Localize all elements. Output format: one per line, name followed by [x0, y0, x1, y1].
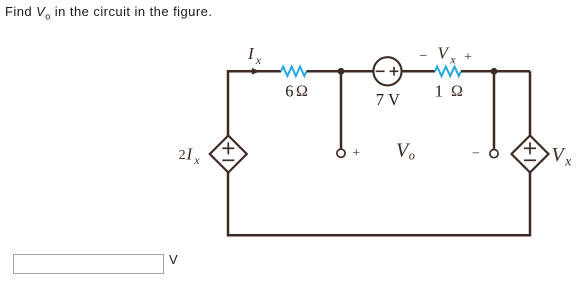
- svg-text:o: o: [409, 148, 415, 162]
- unit label V: [169, 252, 178, 267]
- svg-text:Ω: Ω: [451, 83, 463, 100]
- label 2Ix: [179, 144, 201, 167]
- svg-text:−: −: [472, 147, 480, 162]
- resistor 6ohm: [281, 67, 307, 76]
- dependent source Vx (right diamond): [512, 136, 549, 173]
- svg-text:7: 7: [376, 90, 384, 109]
- terminal + (open circle): [337, 149, 345, 157]
- svg-text:+: +: [464, 50, 472, 65]
- terminal - (open circle): [490, 150, 498, 158]
- label Vx (right): [552, 144, 572, 169]
- svg-text:1: 1: [435, 82, 443, 101]
- svg-text:6: 6: [285, 82, 293, 101]
- svg-text:V: V: [388, 90, 400, 109]
- svg-text:2: 2: [179, 148, 186, 163]
- label 1 ohm: [435, 82, 463, 101]
- label Vo: [396, 140, 415, 163]
- question text: [5, 4, 212, 22]
- node junction dot (top middle-right): [491, 68, 498, 75]
- svg-text:−: −: [420, 49, 428, 64]
- wire: vertical from junction to + terminal: [340, 71, 343, 148]
- wire: 1 ohm to top-right corner: [461, 70, 530, 73]
- voltage source 7V: [373, 57, 401, 85]
- wire: voltage source to 1 ohm resistor: [402, 70, 435, 73]
- svg-text:x: x: [255, 53, 262, 67]
- svg-text:x: x: [193, 153, 200, 167]
- answer input box: [13, 254, 164, 274]
- svg-text:x: x: [449, 53, 456, 67]
- svg-text:V: V: [438, 44, 451, 63]
- svg-text:x: x: [564, 154, 571, 169]
- label Ix: [247, 44, 262, 67]
- node junction dot (top middle-left): [338, 68, 345, 75]
- dependent source 2Ix (left diamond): [210, 136, 247, 173]
- wire: top-left horizontal segment with current arrow: [228, 71, 281, 236]
- wire: right side vertical + bottom: [228, 71, 530, 235]
- svg-text:Ω: Ω: [296, 83, 308, 100]
- svg-text:I: I: [186, 144, 194, 163]
- current arrow Ix: [252, 68, 261, 75]
- svg-text:+: +: [352, 146, 360, 161]
- wire: resistor to voltage source: [307, 70, 374, 73]
- wire: vertical from junction to - terminal: [493, 71, 496, 149]
- resistor 1ohm: [435, 67, 461, 76]
- svg-text:I: I: [247, 44, 255, 63]
- label 6 ohm: [285, 82, 308, 101]
- label - Vx + above 1 ohm: [420, 44, 473, 67]
